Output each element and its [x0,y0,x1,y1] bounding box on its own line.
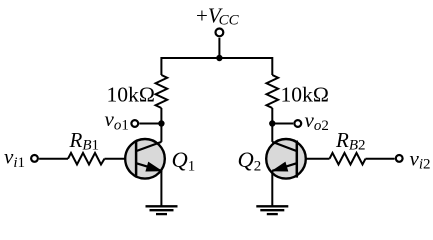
ground Q1 [146,206,178,214]
terminal vo1 [131,120,138,127]
wire Q1 emitter [160,171,162,207]
wire right resistor to vo2 node [271,108,273,124]
resistor RB2 [330,153,366,165]
wire Q2 collector [271,124,273,142]
wire RB1 to Q1 base [105,158,137,160]
resistor RB1 [68,153,105,165]
wire VCC stub [218,38,220,58]
wire Q1 collector [160,124,162,142]
svg-text:10kΩ: 10kΩ [281,83,329,107]
wire Q2 emitter [271,171,273,207]
wire vo2 [272,123,293,125]
wire vi1 to RB1 [39,158,68,160]
transistor Q1 [125,139,165,179]
resistor 10k right [267,75,279,108]
transistor Q2 [266,139,306,179]
junction VCC rail [216,55,222,61]
terminal vo2 [294,120,301,127]
wire vi2 to RB2 [366,158,395,160]
wire left resistor to vo1 node [160,108,162,124]
terminal +VCC [216,29,224,37]
resistor 10k left [156,75,168,108]
svg-text:10kΩ: 10kΩ [107,83,155,107]
terminal vi2 [396,155,403,162]
wire vo1 [139,123,161,125]
junction vo1 [158,120,164,126]
wire RB2 to Q2 base [297,158,330,160]
junction vo2 [269,120,275,126]
terminal vi1 [31,155,38,162]
wire VCC rail [161,58,272,75]
ground Q2 [256,206,288,214]
